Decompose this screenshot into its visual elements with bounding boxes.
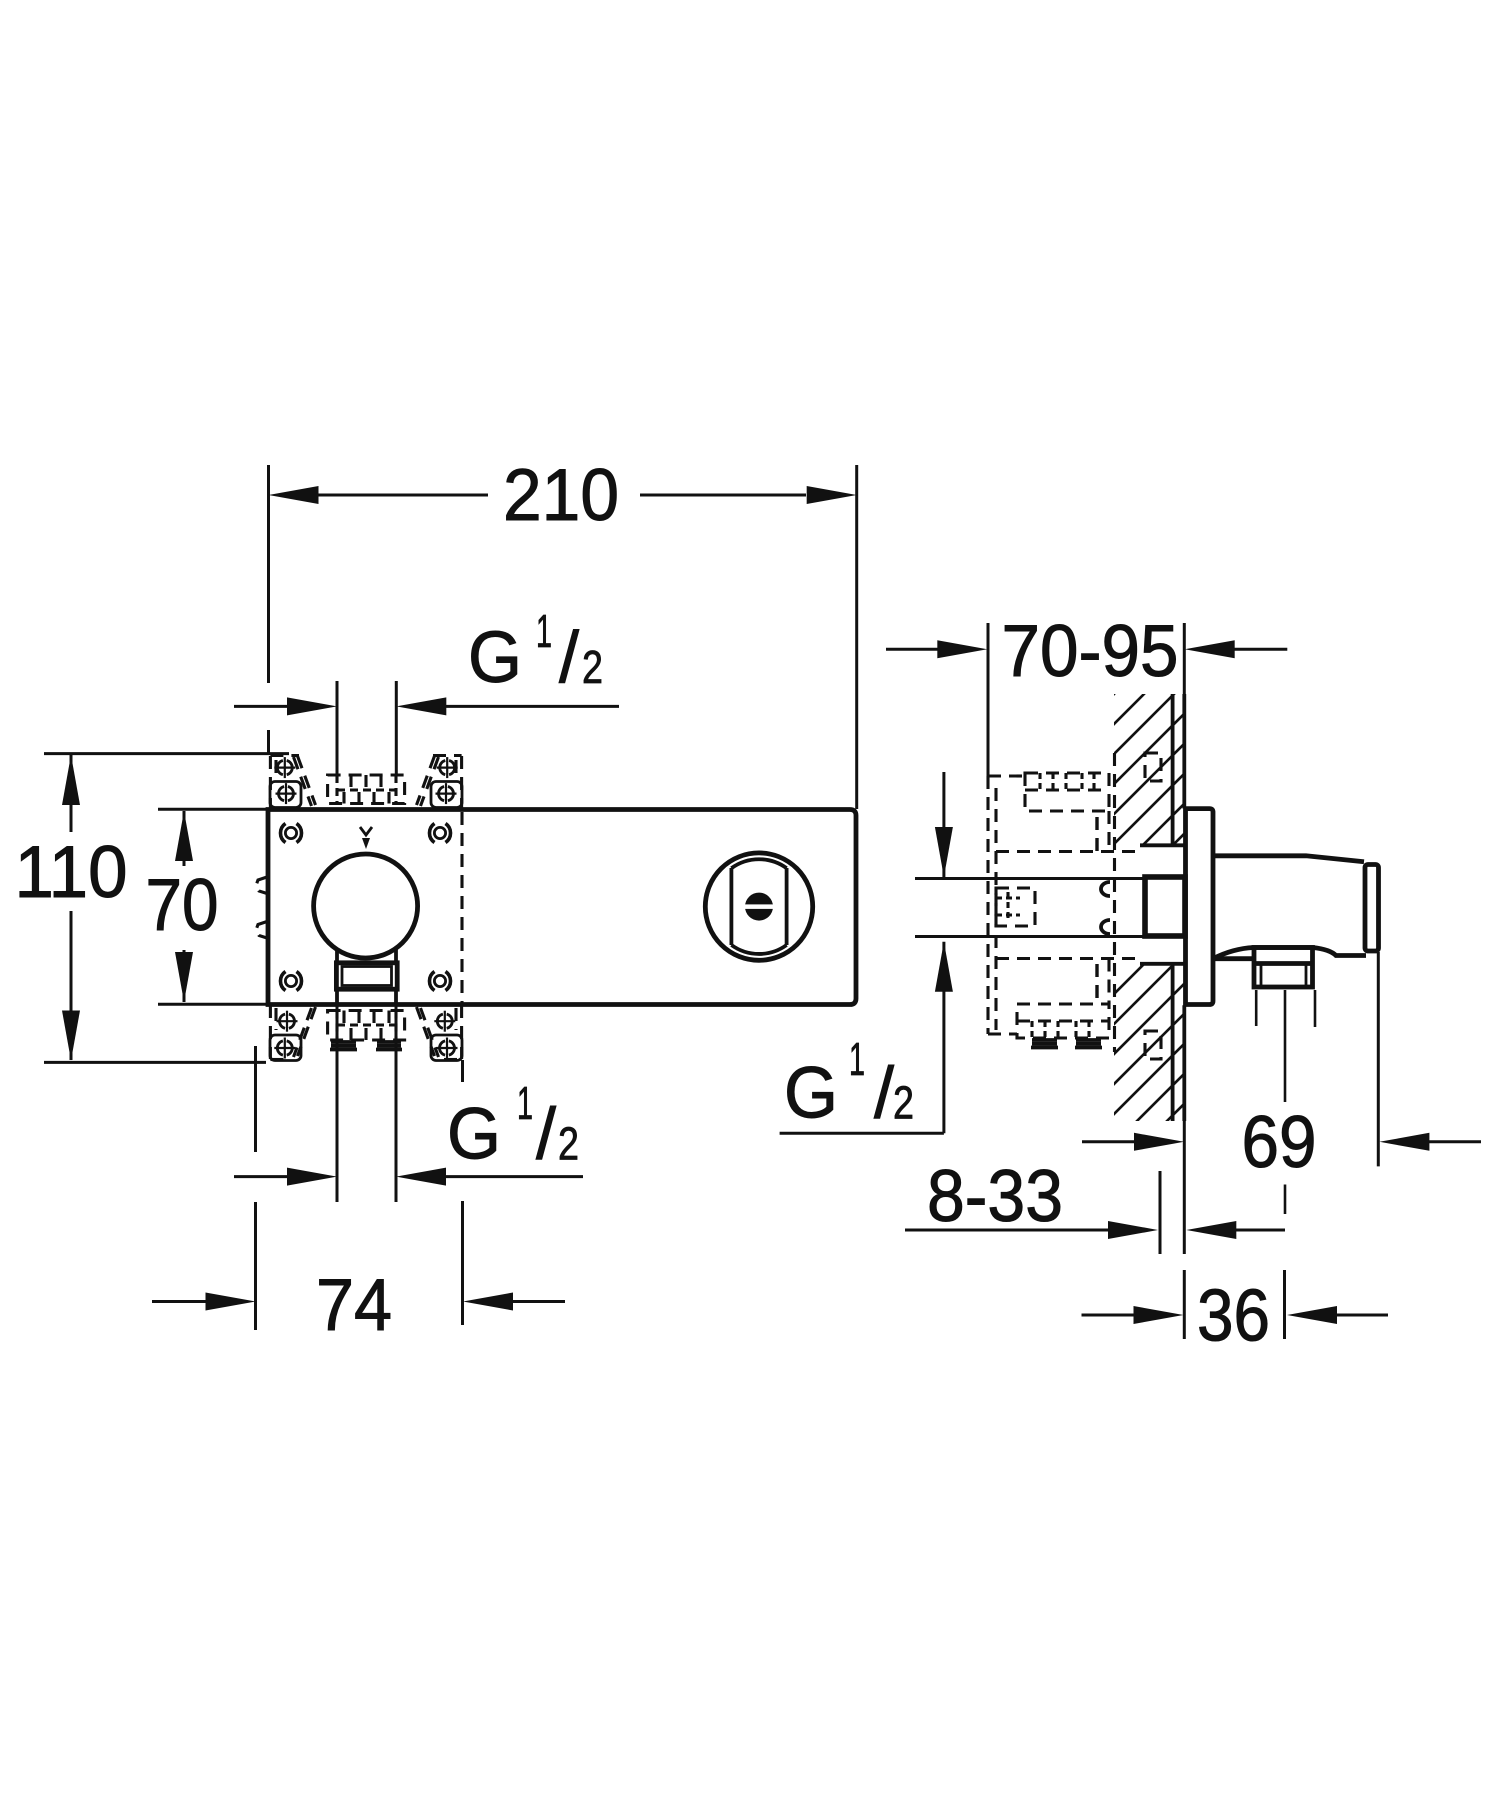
wall opening bottom edge bbox=[1140, 962, 1184, 966]
anchor housing upper (in wall) bbox=[1145, 753, 1161, 781]
top-right wing screw lower bbox=[436, 783, 457, 804]
anchor housing lower (in wall) bbox=[1145, 1031, 1161, 1059]
dimension 74 line and arrows bbox=[152, 1300, 208, 1303]
wall-side dashed boundary bbox=[1113, 753, 1116, 1052]
holder neck lines bbox=[335, 948, 339, 963]
mounting plate left-edge clip marks bbox=[256, 877, 267, 894]
neck lines through plate bottom bbox=[335, 989, 339, 1004]
concealed body side inlet socket bbox=[996, 888, 1035, 926]
holder arm underside and cup mouth bbox=[1213, 956, 1253, 961]
concealed body outline (dashed) left edge bbox=[986, 776, 989, 1034]
orientation arrow marker on plate bbox=[360, 827, 372, 835]
retaining clips bbox=[1101, 882, 1110, 896]
concealed body retention steps bbox=[1095, 817, 1098, 852]
concealed body collar hidden edges bbox=[996, 850, 1142, 853]
outlet G1/2 bottom dimension line and arrows bbox=[234, 1175, 290, 1178]
valve knob screw slot bbox=[745, 893, 773, 921]
wall hatching upper band bbox=[1084, 594, 1214, 964]
svg-text:1: 1 bbox=[517, 1077, 533, 1129]
top-right anchor wing bbox=[417, 756, 463, 809]
outlet G1/2 bottom extension lines bbox=[336, 1004, 339, 1202]
dimension 74 extension lines bbox=[254, 1046, 257, 1152]
dimension 210 extension lines bbox=[267, 465, 270, 683]
finished wall surface line bbox=[1182, 694, 1186, 809]
spigot G1/2 label bbox=[784, 1033, 914, 1134]
bottom-right wing screw lower bbox=[437, 1038, 458, 1059]
dimension 210 line and arrows bbox=[318, 494, 488, 497]
dimension 8-33 extension line bbox=[1159, 1171, 1162, 1254]
svg-text:1: 1 bbox=[536, 605, 552, 657]
bottom outlet thread (dashed) bbox=[328, 1011, 405, 1041]
wall surface extension line lower segments bbox=[1183, 1121, 1186, 1254]
dimension 8-33 line and arrows bbox=[905, 1229, 1110, 1232]
top-left wing screw lower bbox=[276, 783, 297, 804]
plate screw top-left bbox=[280, 824, 301, 843]
svg-text:2: 2 bbox=[558, 1118, 579, 1170]
hand-shower holder socket circle bbox=[314, 854, 418, 958]
dimension 70-95 extension lines bbox=[987, 623, 990, 776]
valve knob outer circle bbox=[705, 853, 812, 960]
plate screw bottom-right bbox=[429, 972, 450, 991]
valve knob chord lines bbox=[730, 868, 734, 945]
holder arm top bbox=[1213, 856, 1364, 862]
concealed body bottom socket bbox=[1017, 1004, 1109, 1038]
cup lower lip lines bbox=[1255, 990, 1258, 1026]
top-left anchor wing bbox=[270, 756, 316, 809]
concealed body right edge segments bbox=[1107, 811, 1110, 852]
plate screw bottom-left bbox=[280, 972, 301, 991]
svg-text:/: / bbox=[874, 1054, 894, 1134]
cup axis center line bbox=[1284, 990, 1287, 1102]
outlet block below socket bbox=[336, 963, 397, 989]
svg-text:8-33: 8-33 bbox=[927, 1156, 1063, 1237]
bottom thread nipples bbox=[330, 1042, 402, 1050]
dimension 69 extension line bbox=[1377, 952, 1380, 1166]
spigot G1/2 dimension line and arrows (side view) bbox=[942, 772, 945, 877]
svg-text:G: G bbox=[447, 1095, 501, 1175]
bottom-left anchor wing bbox=[270, 1005, 316, 1061]
wall hatching lower band bbox=[1084, 894, 1214, 1234]
concealed body top socket bbox=[1025, 773, 1109, 811]
concealed body top edge bbox=[988, 774, 1025, 777]
holder end cap bbox=[1365, 865, 1379, 952]
top supply thread (dashed) bbox=[328, 775, 405, 804]
dimension 70-95 line and arrows bbox=[886, 648, 940, 651]
bottom-left wing screw lower bbox=[274, 1038, 295, 1059]
svg-text:/: / bbox=[536, 1095, 556, 1175]
svg-text:69: 69 bbox=[1242, 1102, 1317, 1183]
dimension 36 line and arrows bbox=[1082, 1314, 1137, 1317]
top-left wing screw upper bbox=[274, 757, 295, 778]
mounting plate dashed right edge bbox=[460, 812, 463, 1003]
thread G1/2 top label bbox=[468, 605, 603, 698]
hand shower cup bbox=[1254, 948, 1313, 988]
dimension 70 extension lines bbox=[158, 808, 268, 811]
bottom-left wing screw upper bbox=[277, 1011, 298, 1032]
bottom socket nipples bbox=[1031, 1040, 1102, 1048]
outlet G1/2 bottom label bbox=[447, 1077, 579, 1175]
svg-text:210: 210 bbox=[503, 455, 619, 536]
thread G1/2 top dimension line and arrows bbox=[234, 705, 290, 708]
svg-text:2: 2 bbox=[582, 641, 603, 693]
rough wall line bbox=[1171, 694, 1175, 845]
svg-text:2: 2 bbox=[893, 1077, 914, 1129]
spigot tube outline bbox=[915, 877, 1145, 880]
valve knob inner circle bbox=[731, 859, 786, 954]
dimension 69 line and arrows bbox=[1082, 1140, 1136, 1143]
svg-text:G: G bbox=[468, 618, 522, 698]
svg-text:70-95: 70-95 bbox=[1002, 611, 1179, 692]
bottom-right wing screw upper bbox=[434, 1011, 455, 1032]
spigot G1/2 leader line bbox=[780, 1132, 944, 1135]
plate screw top-right bbox=[429, 824, 450, 843]
dimension 36 extension line (cup axis) bbox=[1283, 1270, 1286, 1339]
svg-text:/: / bbox=[559, 618, 579, 698]
svg-text:70: 70 bbox=[146, 865, 219, 946]
thread G1/2 top extension lines bbox=[336, 681, 339, 775]
escutcheon flange bbox=[1186, 809, 1214, 1005]
svg-text:110: 110 bbox=[15, 832, 128, 913]
concealed body bottom edge bbox=[988, 1032, 1017, 1035]
svg-text:74: 74 bbox=[316, 1265, 392, 1346]
dimension 110 line and arrows bbox=[70, 755, 73, 832]
svg-text:G: G bbox=[784, 1054, 838, 1134]
svg-text:1: 1 bbox=[849, 1033, 865, 1085]
svg-text:36: 36 bbox=[1197, 1276, 1270, 1357]
top-right wing screw upper bbox=[437, 757, 458, 778]
dimension 70 line and arrows bbox=[183, 811, 186, 866]
square wall connector bbox=[1145, 877, 1185, 936]
dimension 110 extension lines bbox=[44, 752, 289, 755]
faceplate outline (front view) bbox=[268, 810, 856, 1005]
bottom-right anchor wing bbox=[417, 1005, 463, 1061]
wall opening top edge bbox=[1140, 843, 1184, 847]
